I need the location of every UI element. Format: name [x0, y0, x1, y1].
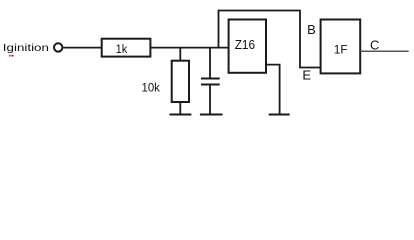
svg-text:1k: 1k [116, 44, 128, 56]
svg-text:E: E [302, 67, 311, 82]
svg-text:10k: 10k [142, 81, 161, 94]
svg-text:Z16: Z16 [235, 37, 255, 52]
svg-text:B: B [307, 22, 316, 37]
svg-text:Iginition: Iginition [3, 42, 49, 54]
svg-text:1F: 1F [334, 42, 348, 56]
svg-text:C: C [370, 38, 379, 53]
